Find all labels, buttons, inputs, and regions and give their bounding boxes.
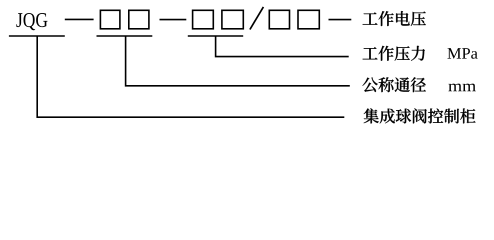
underline under JQG bbox=[9, 35, 65, 37]
label text: 集成球阀控制柜 bbox=[364, 108, 476, 123]
box 3 (digit placeholder) bbox=[193, 10, 214, 29]
wire: dash to working-voltage label bbox=[329, 19, 352, 21]
model code JQG bbox=[16, 13, 47, 30]
wire: connector from boxes 1-2 underline to nominal-diameter label bbox=[126, 36, 350, 86]
unit mm bbox=[448, 84, 476, 92]
box 1 (digit placeholder) bbox=[100, 10, 120, 29]
label text: 工作电压 bbox=[363, 11, 426, 26]
box 5 (digit placeholder) bbox=[269, 10, 289, 29]
wire: dash after JQG bbox=[65, 18, 94, 20]
unit MPa bbox=[447, 48, 477, 59]
underline under boxes 1-2 bbox=[97, 35, 153, 37]
wire: dash between box pairs bbox=[160, 19, 187, 21]
box 6 (digit placeholder) bbox=[298, 10, 319, 29]
wire: connector from JQG underline to cabinet label bbox=[37, 36, 344, 117]
label text: 工作压力 bbox=[363, 46, 425, 61]
wire: connector from boxes 3-4 underline to working-pressure label bbox=[216, 36, 349, 57]
underline under boxes 3-4 bbox=[188, 35, 243, 37]
box 4 (digit placeholder) bbox=[222, 10, 243, 29]
slash separator bbox=[250, 7, 264, 30]
box 2 (digit placeholder) bbox=[129, 10, 149, 29]
label text: 公称通径 bbox=[362, 77, 425, 92]
